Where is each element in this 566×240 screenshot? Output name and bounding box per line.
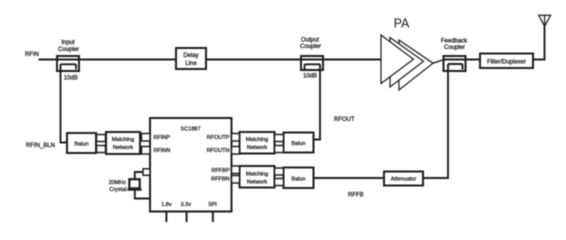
svg-text:Coupler: Coupler <box>300 44 321 50</box>
svg-text:SPI: SPI <box>208 202 217 208</box>
svg-text:RFOUTP: RFOUTP <box>207 135 230 141</box>
svg-text:Balun: Balun <box>291 177 305 183</box>
svg-text:SC1887: SC1887 <box>181 127 201 133</box>
svg-text:RFOUTN: RFOUTN <box>207 148 230 154</box>
svg-text:3.3v: 3.3v <box>181 202 192 208</box>
svg-text:Coupler: Coupler <box>58 47 79 53</box>
svg-text:RFIN: RFIN <box>25 52 39 58</box>
svg-text:Balun: Balun <box>74 142 88 148</box>
svg-text:RFINN: RFINN <box>154 148 171 154</box>
svg-text:Coupler: Coupler <box>444 45 465 51</box>
svg-text:RFINP: RFINP <box>154 135 171 141</box>
svg-text:Network: Network <box>113 145 133 151</box>
svg-text:Filter/Duplexer: Filter/Duplexer <box>487 60 526 66</box>
svg-text:Network: Network <box>247 145 267 151</box>
svg-text:Delay: Delay <box>183 53 198 59</box>
svg-text:RFFB: RFFB <box>348 193 364 199</box>
svg-text:Attenuator: Attenuator <box>391 177 417 183</box>
svg-text:10dB: 10dB <box>64 76 78 82</box>
svg-text:RFFBP: RFFBP <box>211 168 229 174</box>
svg-text:Crystal: Crystal <box>109 187 126 193</box>
svg-text:10dB: 10dB <box>303 73 317 79</box>
svg-text:RFFBN: RFFBN <box>211 177 229 183</box>
svg-text:PA: PA <box>394 17 410 31</box>
svg-text:1.8v: 1.8v <box>161 202 172 208</box>
svg-text:Matching: Matching <box>246 172 268 178</box>
svg-text:Output: Output <box>301 38 319 44</box>
svg-text:RFOUT: RFOUT <box>334 117 355 123</box>
svg-text:Matching: Matching <box>112 137 134 143</box>
svg-text:Input: Input <box>61 40 75 46</box>
svg-text:Network: Network <box>247 180 267 186</box>
svg-text:20MHz: 20MHz <box>109 180 127 186</box>
svg-text:RFIN_BLN: RFIN_BLN <box>26 143 55 149</box>
svg-text:Feedback: Feedback <box>441 39 468 45</box>
svg-text:Matching: Matching <box>246 137 268 143</box>
svg-text:Balun: Balun <box>291 141 305 147</box>
svg-text:Line: Line <box>185 61 197 67</box>
